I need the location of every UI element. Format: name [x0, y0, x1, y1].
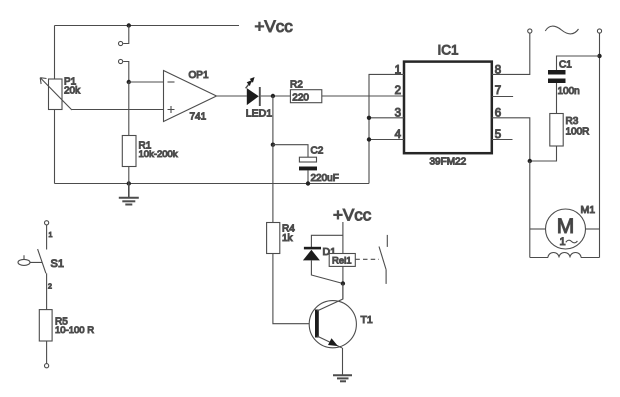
- svg-text:10k-200k: 10k-200k: [139, 149, 178, 160]
- wire pin 1 to ground bus: [369, 74, 404, 183]
- contact terminal lower (open circle): [119, 59, 123, 63]
- wire node A down to R1: [128, 82, 130, 136]
- wire pin 3 to bus: [369, 117, 404, 119]
- ground symbol (T1): [333, 375, 352, 381]
- wire pin 8 to AC terminal: [492, 33, 530, 74]
- wire junction to C1: [557, 56, 600, 70]
- svg-text:741: 741: [190, 112, 207, 123]
- wire op-amp output to LED: [217, 95, 247, 97]
- IC1 body: [404, 62, 492, 154]
- switch S1 blade: [38, 249, 46, 273]
- svg-text:C1: C1: [559, 60, 572, 71]
- wire LED to node B and R2: [261, 95, 291, 97]
- wire S1 to R5: [46, 273, 48, 309]
- resistor R4 body: [267, 223, 280, 254]
- wire R2 to IC1 pin 2: [322, 95, 404, 97]
- svg-text:220uF: 220uF: [311, 173, 339, 184]
- svg-text:S1: S1: [51, 258, 64, 270]
- wire junction to upper contact: [123, 26, 129, 44]
- svg-text:+Vcc: +Vcc: [255, 17, 294, 36]
- node D junction: [528, 159, 532, 163]
- potentiometer P1 body: [49, 79, 63, 110]
- wire pin 5 stub: [492, 139, 513, 141]
- wire node C down to R4: [272, 145, 274, 223]
- svg-text:M: M: [557, 215, 575, 238]
- LED1 cathode bar: [259, 87, 261, 106]
- diode D1 body: [303, 250, 320, 261]
- wire left motor rail: [529, 161, 531, 258]
- wire R4 to T1 base: [273, 254, 315, 324]
- svg-text:R2: R2: [290, 79, 303, 90]
- node B junction: [271, 94, 275, 98]
- terminal S1 top (open circle): [45, 221, 49, 225]
- svg-text:R3: R3: [566, 116, 579, 127]
- svg-text:1: 1: [49, 232, 53, 239]
- capacitor C1 plate 2: [548, 79, 566, 84]
- resistor R3 body: [550, 114, 563, 147]
- wire pin 4 to bus: [369, 139, 404, 141]
- svg-text:Rel1: Rel1: [332, 256, 352, 267]
- svg-text:100R: 100R: [566, 127, 590, 138]
- wire lower contact to node A: [123, 62, 129, 83]
- svg-text:2: 2: [48, 284, 52, 291]
- relay linkage (dashed): [355, 258, 379, 260]
- wire node E to T1 collector: [342, 284, 344, 300]
- wire motor right terminal: [586, 228, 600, 230]
- AC terminal right (open circle): [597, 29, 601, 33]
- node pin3 bus junction: [367, 116, 371, 120]
- op-amp non-inverting input mark: [168, 106, 175, 113]
- wire pin 6 to node D: [492, 118, 530, 161]
- wire coil to bottom right: [581, 257, 600, 259]
- wire ground rail: [55, 183, 370, 185]
- node A junction: [127, 80, 131, 84]
- svg-text:1: 1: [560, 236, 566, 248]
- wire relay branch to D1: [311, 235, 343, 247]
- node C2/rail junction: [306, 181, 310, 185]
- diode D1 cathode bar: [304, 247, 321, 250]
- svg-text:220: 220: [292, 93, 309, 104]
- relay contact top terminal: [386, 235, 388, 247]
- terminal S1 bottom (open circle): [45, 364, 49, 368]
- wire node A to op-amp inverting input: [129, 81, 164, 83]
- svg-text:M1: M1: [581, 204, 596, 216]
- potentiometer P1 wiper arrow: [40, 78, 72, 110]
- wire node C to C2: [273, 145, 308, 158]
- svg-text:+Vcc: +Vcc: [333, 206, 372, 225]
- svg-text:T1: T1: [361, 314, 373, 326]
- svg-text:10-100 R: 10-100 R: [55, 325, 94, 336]
- node C1 junction: [597, 54, 601, 58]
- wire node B down to node C: [272, 96, 274, 145]
- wire bottom left to coil: [530, 257, 548, 259]
- svg-text:100n: 100n: [558, 86, 580, 97]
- switch S1 lever knob: [18, 259, 30, 265]
- motor M1 body: [546, 209, 586, 249]
- AC terminal left (open circle): [528, 29, 532, 33]
- svg-text:1k: 1k: [282, 233, 294, 244]
- relay contact blade: [379, 247, 386, 270]
- svg-text:OP1: OP1: [189, 70, 209, 81]
- resistor R2 body: [290, 90, 321, 103]
- wire top rail down to P1: [54, 26, 56, 80]
- node pin4 bus junction: [367, 137, 371, 141]
- T1 collector lead: [317, 284, 343, 312]
- svg-text:IC1: IC1: [438, 43, 459, 58]
- svg-text:39FM22: 39FM22: [430, 157, 467, 168]
- svg-text:2: 2: [395, 85, 401, 97]
- wire D1 anode to node E: [311, 260, 343, 283]
- wire R1 to ground rail: [128, 167, 130, 184]
- wire R5 to bottom terminal: [46, 341, 48, 364]
- svg-text:LED1: LED1: [246, 108, 272, 120]
- wire right rail: [599, 33, 601, 258]
- T1 emitter lead: [317, 336, 342, 348]
- AC wave symbol: [545, 26, 578, 34]
- resistor R1 body: [122, 136, 136, 167]
- transistor T1 body: [309, 301, 356, 348]
- inductor field coil: [548, 253, 581, 258]
- node C junction: [271, 143, 275, 147]
- contact terminal upper (open circle): [119, 41, 123, 45]
- T1 base bar: [315, 310, 319, 338]
- wire +Vcc to relay Rel1: [342, 222, 344, 254]
- T1 emitter arrow: [328, 338, 338, 346]
- resistor R5 body: [39, 310, 52, 341]
- LED1 emission arrows: [249, 81, 252, 85]
- LED LED1 body: [247, 88, 259, 105]
- node ground-rail / R1 junction: [127, 181, 131, 185]
- relay contact bottom terminal: [385, 270, 387, 284]
- wire R3 to node D: [530, 146, 557, 161]
- wire C1 to R3: [556, 83, 558, 114]
- wire P1 wiper to op-amp non-inverting input: [72, 109, 164, 111]
- wire motor left terminal: [530, 228, 546, 230]
- wire P1 bottom to ground rail: [54, 110, 56, 184]
- capacitor C2 positive plate: [299, 157, 316, 162]
- wire pin 7 stub: [492, 96, 513, 98]
- svg-text:C2: C2: [311, 146, 324, 157]
- capacitor C1 plate 1: [548, 70, 566, 75]
- op-amp inverting input mark: [168, 81, 175, 83]
- wire emitter to ground: [342, 348, 344, 375]
- op-amp OP1 body: [164, 71, 217, 122]
- wire +Vcc top rail: [55, 25, 240, 27]
- ground symbol (left): [119, 184, 139, 205]
- wire Rel1 to node E: [342, 266, 344, 283]
- switch S1 lever: [24, 255, 42, 262]
- node E junction: [341, 281, 345, 285]
- relay coil Rel1 body: [329, 254, 355, 267]
- capacitor C2 negative plate: [299, 167, 317, 171]
- wire C2 to ground rail: [307, 170, 309, 183]
- svg-text:7: 7: [495, 85, 501, 97]
- node top-rail junction: [127, 23, 131, 27]
- svg-text:20k: 20k: [64, 86, 81, 97]
- wire terminal to S1: [46, 225, 48, 250]
